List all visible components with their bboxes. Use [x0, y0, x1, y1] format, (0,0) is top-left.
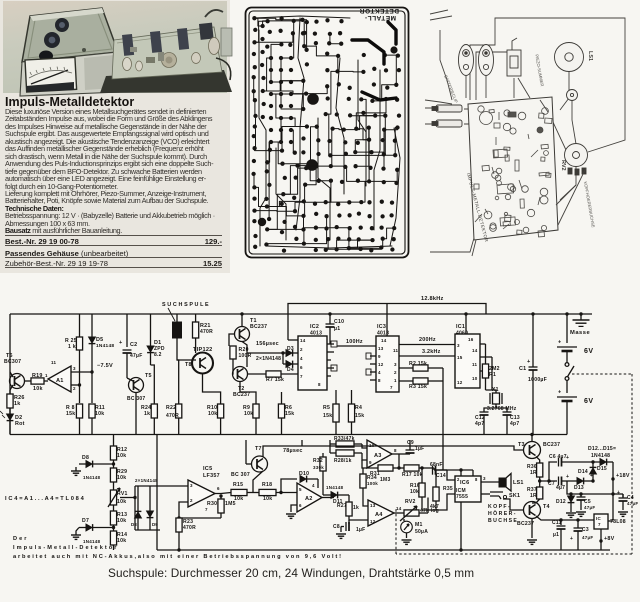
svg-text:14: 14: [300, 338, 306, 343]
svg-text:C6 4µ7: C6 4µ7: [549, 454, 567, 460]
svg-text:+: +: [570, 536, 573, 542]
svg-text:Masse: Masse: [570, 330, 591, 336]
resistor R36 1R: [537, 463, 543, 477]
svg-text:200Hz: 200Hz: [419, 337, 436, 343]
svg-text:3.2768 MHz: 3.2768 MHz: [487, 406, 517, 412]
coil L1 Suchspule: [176, 314, 178, 322]
resistor R1 2M2: [485, 344, 487, 364]
wire IC6 power pins: [460, 470, 462, 476]
svg-text:R35: R35: [443, 486, 453, 492]
resistor R12: [110, 446, 116, 460]
resistor R21: [195, 314, 197, 322]
svg-text:12: 12: [378, 362, 384, 367]
svg-text:+: +: [558, 390, 561, 396]
node +18V: [612, 462, 614, 520]
svg-text:R28/1k: R28/1k: [334, 458, 352, 464]
resistor R8: [76, 404, 82, 418]
piezo buzzer LS1: [555, 43, 584, 72]
svg-text:D10: D10: [299, 471, 309, 477]
svg-text:10k: 10k: [244, 411, 253, 417]
svg-text:8: 8: [394, 448, 397, 453]
ground for D8: [71, 470, 81, 472]
svg-text:IC2: IC2: [310, 324, 319, 330]
svg-text:+18V: +18V: [616, 473, 630, 479]
svg-text:LS1: LS1: [587, 51, 593, 61]
wire left edge: [9, 314, 11, 435]
svg-text:11: 11: [472, 362, 478, 367]
resistor R29: [110, 468, 116, 482]
svg-text:µ1: µ1: [334, 326, 340, 332]
svg-text:+: +: [119, 340, 123, 346]
IC U7 78L08: [594, 514, 608, 529]
diode D15: [600, 459, 606, 466]
svg-text:1000µF: 1000µF: [528, 377, 547, 383]
svg-text:10k: 10k: [117, 518, 126, 524]
wire into IC6: [447, 470, 455, 480]
diode D1 zener: [150, 314, 152, 346]
svg-text:BC237: BC237: [233, 392, 250, 398]
op-amp A3: [367, 440, 392, 468]
resistor R7: [266, 371, 281, 377]
svg-text:7: 7: [300, 374, 303, 379]
wire A1 pin3: [71, 371, 92, 373]
svg-text:100Hz: 100Hz: [346, 339, 363, 345]
IC U3 4013: [376, 336, 399, 392]
wire IC6 pin3 to speaker: [481, 481, 499, 483]
svg-text:4p7: 4p7: [475, 421, 484, 427]
resistor R18: [259, 489, 276, 495]
svg-text:3.2kHz: 3.2kHz: [422, 349, 441, 355]
svg-text:D e r: D e r: [13, 536, 27, 542]
svg-text:D14: D14: [578, 469, 588, 475]
wire T2 collector: [246, 366, 248, 367]
svg-text:R7 15k: R7 15k: [266, 377, 284, 383]
wire to diodes D3 D4: [247, 352, 283, 354]
svg-text:+: +: [566, 474, 569, 480]
svg-text:5: 5: [299, 487, 302, 492]
svg-text:12.8kHz: 12.8kHz: [421, 296, 444, 302]
wire output node to C6/C7: [540, 480, 557, 482]
svg-text:+: +: [617, 490, 620, 496]
resistor R10: [218, 404, 224, 418]
resistor R35 4k7: [436, 469, 447, 471]
IC2 right pin stubs: [327, 343, 334, 345]
wire IC2 to IC3: [337, 345, 376, 347]
resistor R14: [110, 531, 116, 545]
svg-text:D8: D8: [82, 455, 89, 461]
resistor R25: [79, 314, 81, 337]
wire 200Hz link: [399, 344, 455, 346]
svg-text:IC1: IC1: [456, 324, 465, 330]
svg-text:6V: 6V: [584, 398, 594, 405]
svg-text:10: 10: [472, 376, 478, 381]
svg-text:+: +: [558, 340, 561, 346]
wire IC6 ground pin: [460, 502, 462, 550]
svg-text:10k: 10k: [263, 496, 272, 502]
IC U6 ICM7555: [455, 476, 481, 502]
svg-text:C7: C7: [548, 481, 555, 487]
svg-text:3: 3: [483, 476, 486, 481]
transistor T6: [10, 374, 25, 389]
wire R20 to T2 base: [232, 359, 235, 374]
resistor R22: [176, 404, 182, 418]
svg-text:R3 15k: R3 15k: [409, 384, 427, 390]
wire IC1 right pins: [480, 343, 486, 345]
svg-text:RV1: RV1: [117, 491, 128, 497]
svg-text:−7.5V: −7.5V: [97, 363, 113, 369]
svg-text:TIP122: TIP122: [193, 347, 213, 353]
svg-text:R32: R32: [313, 458, 323, 464]
wire harness loops: [470, 18, 625, 152]
transistor T5: [129, 378, 144, 393]
svg-text:BATTERIECLIP: BATTERIECLIP: [443, 74, 459, 103]
resistor R33 47k: [329, 440, 331, 444]
svg-text:8: 8: [475, 477, 478, 482]
svg-text:14: 14: [472, 348, 478, 353]
diode D9: [149, 486, 151, 511]
trim pot: [567, 90, 578, 101]
capacitor C5 47uF: [579, 492, 582, 495]
capacitor C1 1000uF: [532, 314, 534, 367]
svg-text:PIEZO-SUMMER: PIEZO-SUMMER: [534, 54, 545, 87]
pcb layout panel: [246, 7, 409, 258]
product photo: [3, 1, 232, 96]
potentiometer RV2: [404, 510, 419, 516]
svg-text:H Ö R E R -: H Ö R E R -: [488, 510, 516, 517]
resistor R34 100k: [362, 468, 364, 474]
svg-text:15k: 15k: [355, 413, 364, 419]
svg-text:1R: 1R: [530, 470, 537, 476]
svg-text:A3: A3: [374, 453, 382, 459]
svg-text:2×1N4148: 2×1N4148: [135, 478, 158, 483]
resistor R3: [399, 380, 413, 382]
wire A2 output: [322, 497, 334, 499]
svg-text:78µsec: 78µsec: [283, 448, 303, 454]
svg-text:330k: 330k: [313, 465, 324, 470]
svg-text:15k: 15k: [66, 411, 75, 417]
wire T3 emitter: [536, 457, 540, 464]
svg-text:1: 1: [394, 378, 397, 383]
wire bottom rail lower section: [157, 549, 610, 551]
ground Masse: [580, 314, 582, 320]
svg-text:M1: M1: [415, 522, 423, 528]
battery B1 6V: [566, 314, 568, 343]
wire T4 base: [503, 499, 524, 510]
svg-text:LF357: LF357: [203, 473, 220, 479]
wire 3.2kHz link: [399, 355, 455, 357]
svg-text:BC307: BC307: [4, 359, 21, 365]
svg-text:T3: T3: [518, 442, 525, 448]
wire T1 emitter chain: [242, 342, 247, 367]
resistor R2: [399, 367, 413, 369]
wire IC5 output: [215, 493, 231, 494]
svg-text:8.2: 8.2: [154, 352, 162, 358]
wire bottom rail of oscillator section: [10, 434, 567, 436]
dashed battery option box: [572, 373, 632, 375]
wire IC1 pin16 to rail: [465, 314, 467, 334]
svg-text:47µF: 47µF: [584, 505, 595, 510]
capacitor C9 1uF: [399, 453, 410, 455]
svg-text:15k: 15k: [285, 411, 294, 417]
resistor R5: [333, 404, 339, 422]
svg-text:R2 15k: R2 15k: [409, 361, 427, 367]
svg-text:RV2: RV2: [405, 499, 416, 505]
resistor R17 10k: [399, 467, 404, 469]
svg-text:1N4148: 1N4148: [83, 539, 101, 544]
op-amp A2: [297, 483, 322, 512]
svg-text:3: 3: [73, 366, 76, 371]
crystal X1: [491, 357, 493, 390]
potentiometer RV2: [565, 144, 588, 167]
wire T8 emitter to R10: [203, 374, 221, 405]
diode D3: [286, 350, 292, 357]
svg-text:7: 7: [205, 507, 208, 512]
svg-text:BC237: BC237: [543, 442, 560, 448]
svg-text:13: 13: [370, 503, 376, 508]
wire clip diode branch: [135, 485, 160, 487]
svg-text:R4: R4: [355, 405, 362, 411]
svg-text:D12: D12: [556, 499, 566, 505]
diode D12 zener: [567, 481, 571, 494]
diode D14: [592, 462, 594, 468]
svg-text:11: 11: [393, 348, 399, 353]
svg-text:10k: 10k: [95, 411, 104, 417]
diode D2 red LED: [9, 408, 11, 414]
svg-text:IC3: IC3: [377, 324, 386, 330]
svg-text:D13: D13: [574, 485, 584, 491]
svg-text:T7: T7: [255, 446, 262, 452]
svg-text:3: 3: [190, 483, 193, 488]
photo: pcb module on stand: [100, 10, 232, 93]
svg-text:6: 6: [300, 365, 303, 370]
main board (tilted): [468, 97, 558, 240]
svg-text:1N4148: 1N4148: [83, 475, 101, 480]
svg-text:470R: 470R: [200, 329, 213, 335]
svg-text:1R: 1R: [530, 493, 537, 499]
svg-text:1k: 1k: [144, 411, 150, 417]
svg-text:A4: A4: [375, 512, 383, 518]
wire raised 12.8kHz rail: [288, 304, 486, 341]
svg-text:D4: D4: [287, 367, 294, 373]
svg-text:47µF: 47µF: [627, 501, 638, 506]
svg-text:C2: C2: [130, 342, 137, 348]
svg-text:D15: D15: [597, 466, 607, 472]
svg-text:47µF: 47µF: [582, 535, 593, 540]
capacitor C12: [480, 411, 489, 413]
svg-text:METALL-: METALL-: [364, 14, 396, 21]
svg-text:10k: 10k: [208, 411, 217, 417]
wire top supply rail: [10, 313, 592, 315]
wire raised rail to IC2 pin14: [288, 339, 298, 341]
photo: enclosure box top face: [22, 8, 118, 62]
svg-text:1µF: 1µF: [415, 446, 424, 452]
ground for D7: [76, 528, 79, 536]
ground A2: [291, 505, 297, 512]
svg-text:R15: R15: [233, 482, 243, 488]
resistor R9: [253, 404, 259, 418]
svg-text:2: 2: [394, 370, 397, 375]
transistor T2: [233, 367, 248, 382]
diode D7: [113, 525, 115, 531]
svg-text:2: 2: [190, 498, 193, 503]
capacitor C3 47uF: [576, 518, 579, 521]
svg-text:13: 13: [378, 346, 384, 351]
svg-text:4: 4: [300, 356, 303, 361]
svg-text:6: 6: [217, 486, 220, 491]
svg-text:IC5: IC5: [203, 466, 212, 472]
svg-text:1N4148: 1N4148: [326, 485, 344, 490]
capacitor C13: [503, 411, 512, 413]
svg-text:B U C H S E: B U C H S E: [488, 518, 517, 524]
wire R12 column top: [113, 435, 115, 447]
wire extra harness: [425, 100, 586, 256]
svg-text:12: 12: [457, 380, 463, 385]
svg-text:1µF: 1µF: [356, 527, 365, 533]
svg-text:4µ7: 4µ7: [556, 485, 565, 491]
svg-text:R22: R22: [166, 405, 176, 411]
wire A4 output to RV2: [394, 512, 404, 514]
svg-text:10k: 10k: [33, 386, 43, 392]
svg-text:+: +: [527, 359, 531, 365]
svg-text:IC: IC: [596, 516, 602, 521]
resistor R31 1M3: [362, 460, 378, 468]
wire T1 base: [229, 334, 235, 346]
transistor T1: [241, 314, 243, 327]
wire coil node down to R22: [177, 360, 179, 404]
wire D1 to R24: [151, 365, 155, 404]
diode D13: [577, 478, 583, 485]
capacitor C2: [126, 314, 128, 347]
svg-text:3: 3: [457, 343, 460, 348]
op-amp A1: [44, 380, 48, 382]
battery clip 2: [479, 45, 494, 76]
svg-text:47µF: 47µF: [130, 353, 143, 359]
svg-text:1k: 1k: [14, 401, 21, 407]
svg-text:1: 1: [45, 373, 48, 378]
svg-text:11: 11: [51, 360, 57, 365]
svg-text:arbeitet auch mit NC-Akkus,als: arbeitet auch mit NC-Akkus,also mit eine…: [13, 554, 341, 560]
svg-text:470R: 470R: [183, 525, 196, 531]
wire A1 pin2: [71, 384, 80, 386]
svg-text:4013: 4013: [377, 331, 389, 337]
svg-text:BC 307: BC 307: [231, 472, 250, 478]
svg-text:Rot: Rot: [15, 421, 25, 427]
svg-text:+: +: [566, 455, 569, 461]
IC U2 4013: [298, 336, 327, 390]
svg-text:10k: 10k: [117, 475, 126, 481]
wire A4 in: [348, 495, 350, 502]
svg-text:14: 14: [381, 338, 387, 343]
svg-text:78L08: 78L08: [610, 519, 626, 525]
resistor R28 1k: [336, 450, 354, 456]
svg-text:1 k: 1 k: [68, 344, 76, 350]
svg-text:A2: A2: [305, 496, 313, 502]
svg-text:8: 8: [318, 382, 321, 387]
svg-text:10k: 10k: [117, 538, 126, 544]
capacitor C6 4u7: [558, 458, 560, 467]
svg-text:RV2: RV2: [560, 160, 566, 171]
wire osc bottom: [486, 390, 497, 393]
speaker LS1: [499, 478, 506, 487]
svg-text:D8: D8: [131, 522, 137, 527]
wire IC3 pin14 to raised rail: [386, 304, 388, 337]
resistor R15: [231, 489, 247, 495]
svg-text:KOPFHOERERBUCHSE: KOPFHOERERBUCHSE: [583, 181, 596, 228]
svg-text:6: 6: [299, 503, 302, 508]
svg-text:1k: 1k: [353, 505, 359, 511]
IC3 left pin stubs: [370, 355, 376, 357]
svg-text:LS1: LS1: [513, 480, 524, 486]
wire +8V node: [600, 529, 602, 541]
wire coil to T8 collector: [177, 352, 196, 360]
svg-text:R19: R19: [32, 373, 43, 379]
switch: [507, 50, 521, 76]
jack SK1: [481, 493, 490, 495]
diode D5: [91, 314, 93, 337]
svg-text:4013: 4013: [310, 331, 322, 337]
svg-text:1M3: 1M3: [380, 477, 390, 483]
svg-text:7: 7: [390, 385, 393, 390]
wire R36 R37 junction: [539, 477, 541, 487]
svg-text:100k: 100k: [367, 481, 378, 486]
svg-text:D5: D5: [96, 337, 103, 343]
svg-text:R18: R18: [262, 482, 272, 488]
phone jacks: [436, 105, 462, 112]
capacitor C4 47uF: [612, 493, 614, 495]
resistor R20: [230, 346, 236, 359]
switch S1: [565, 363, 569, 367]
svg-text:C14: C14: [436, 473, 446, 479]
svg-text:4p7: 4p7: [510, 421, 519, 427]
wire T2 emitter to R9: [240, 382, 256, 405]
capacitor C14 68nF: [433, 468, 435, 470]
svg-text:T5: T5: [145, 373, 152, 379]
transistor T8 TIP122: [192, 353, 213, 374]
wire A4 RV2 node: [419, 512, 428, 514]
svg-text:C3: C3: [582, 527, 589, 533]
resistor R4: [351, 390, 353, 404]
wire T6 base to R19: [25, 380, 32, 382]
resistor R26: [9, 390, 11, 394]
wire T2 collector to R7: [247, 373, 266, 375]
svg-text:T8: T8: [185, 362, 192, 368]
resistor R24: [151, 404, 157, 418]
svg-text:R27: R27: [337, 503, 347, 509]
svg-text:156µsec: 156µsec: [256, 341, 279, 347]
svg-text:BC237: BC237: [250, 324, 267, 330]
svg-text:2: 2: [457, 477, 460, 482]
svg-text:1N4148: 1N4148: [96, 343, 114, 349]
capacitor C8 1uF: [348, 520, 350, 524]
svg-text:C8: C8: [333, 524, 340, 530]
resistor R6: [281, 392, 283, 404]
capacitor C7 4u7: [558, 477, 560, 486]
svg-text:7: 7: [598, 522, 601, 527]
svg-text:8: 8: [378, 378, 381, 383]
resistor R19: [31, 378, 44, 384]
diode D8: [113, 460, 115, 468]
wire RV1 wiper: [120, 497, 135, 499]
capacitor C10: [329, 314, 331, 324]
svg-text:15k: 15k: [323, 413, 332, 419]
resistor R11: [89, 404, 95, 418]
capacitor C11 u1: [560, 520, 562, 525]
svg-text:A1: A1: [56, 378, 64, 384]
svg-text:10k: 10k: [410, 489, 419, 495]
diode D10: [281, 479, 297, 493]
wire lower mid vertical: [156, 435, 158, 551]
svg-text:1N4148: 1N4148: [591, 453, 610, 459]
